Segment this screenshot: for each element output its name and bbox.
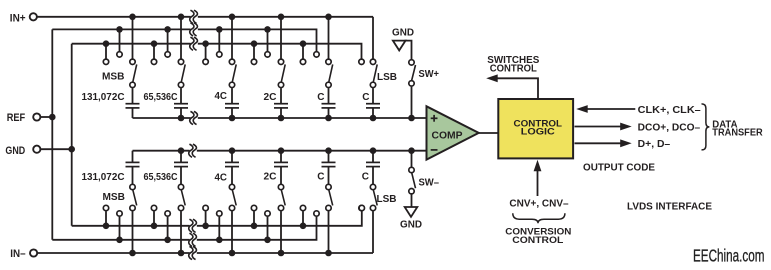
junction IN- rail at 64k- <box>178 250 185 257</box>
wire capacitor to pivot (4C-) <box>231 167 233 185</box>
contact REF (MSB+) <box>117 52 122 57</box>
wire pivot to capacitor (64k+) <box>180 88 182 104</box>
junction REF bottom rail at 64k- <box>164 237 171 244</box>
junction GND bottom rail at 64k- <box>151 223 158 230</box>
switch pivot (64k+) <box>178 82 183 87</box>
wire IN+ stub to switch contact (2C+) <box>280 17 282 59</box>
junction GND rail at 4C+ <box>202 40 209 47</box>
junction summing rail at 64k+ <box>178 115 185 122</box>
capacitor C1- top plate <box>322 161 336 163</box>
svg-text:2C: 2C <box>264 92 277 103</box>
switch lever (LSB-) <box>373 190 377 206</box>
junction summing rail at C1+ <box>325 115 332 122</box>
svg-text:C: C <box>362 92 369 103</box>
wire break symbol <box>191 116 198 120</box>
junction IN+ rail at MSB+ <box>129 13 136 20</box>
pin + of comparator <box>431 117 438 119</box>
brace data transfer <box>702 104 710 150</box>
wire REF vertical bus <box>51 29 53 239</box>
ground symbol above SW+ <box>393 41 406 51</box>
svg-text:65,536C: 65,536C <box>144 92 178 103</box>
wire GND stub (4C-) <box>205 211 207 226</box>
wire REF stub (MSB+) <box>119 29 121 51</box>
wire GND stub (2C+) <box>253 44 255 59</box>
capacitor MSB+ top plate <box>126 103 140 105</box>
wire IN+ rail corner down to LSB+ contact <box>372 17 374 59</box>
wire DCO output line <box>575 126 622 128</box>
junction REF rail at 4C+ <box>216 26 223 33</box>
junction REF <box>49 114 56 121</box>
wire GND stub (C1-) <box>302 211 304 226</box>
node IN- terminal <box>30 249 37 256</box>
node IN+ terminal <box>30 13 37 20</box>
switch contact IN- (C1-) <box>326 205 331 210</box>
switch contact IN+ (2C+) <box>278 59 283 64</box>
capacitor C1- bottom plate <box>322 166 336 168</box>
switch pivot (LSB-) <box>370 184 375 189</box>
wire ground to SW+ contact <box>405 41 412 59</box>
switch pivot (4C+) <box>229 82 234 87</box>
wire IN- stub (2C-) <box>280 211 282 253</box>
capacitor LSB- top plate <box>366 161 380 163</box>
wire summing rail to capacitor (2C-) <box>280 151 282 163</box>
svg-text:MSB: MSB <box>103 192 126 203</box>
switch pivot (2C-) <box>278 184 283 189</box>
junction IN- rail at MSB- <box>129 250 136 257</box>
svg-text:SW–: SW– <box>419 178 440 189</box>
switch contact IN+ (MSB+) <box>130 59 135 64</box>
switch SW+ lever <box>412 65 416 80</box>
wire IN- stub (64k-) <box>180 211 182 253</box>
svg-text:C: C <box>362 172 369 183</box>
capacitor LSB- bottom plate <box>366 166 380 168</box>
wire GND stub (64k-) <box>153 211 155 226</box>
wire REF stub (MSB-) <box>119 217 121 240</box>
svg-text:4C: 4C <box>215 91 228 102</box>
capacitor MSB- bottom plate <box>126 166 140 168</box>
pin - of comparator <box>431 149 438 151</box>
svg-text:CLK+, CLK–: CLK+, CLK– <box>638 105 701 116</box>
capacitor 64k- bottom plate <box>174 166 188 168</box>
junction GND rail at MSB+ <box>103 40 110 47</box>
svg-text:GND: GND <box>5 145 25 157</box>
contact REF (2C+) <box>265 52 270 57</box>
contact GND (LSB+) <box>359 59 364 64</box>
svg-text:LSB: LSB <box>377 72 397 83</box>
control logic block U2 <box>498 99 573 158</box>
switch lever (2C-) <box>281 190 285 206</box>
wire break symbol <box>191 27 198 31</box>
contact GND (LSB-) <box>359 205 364 210</box>
capacitor 64k+ top plate <box>174 103 188 105</box>
svg-text:COMP: COMP <box>432 130 463 141</box>
wire capacitor to pivot (2C-) <box>280 167 282 185</box>
wire REF stub (4C-) <box>218 217 220 240</box>
switch lever (MSB+) <box>133 64 137 82</box>
wire IN- stub (MSB-) <box>132 211 134 253</box>
wire IN+ stub to switch contact (MSB+) <box>132 17 134 59</box>
junction GND rail at C1+ <box>300 40 307 47</box>
arrow DCO output <box>620 123 632 131</box>
svg-text:CNV+, CNV–: CNV+, CNV– <box>509 199 569 210</box>
capacitor 64k- top plate <box>174 161 188 163</box>
switch contact IN- (MSB-) <box>130 205 135 210</box>
switch lever (4C+) <box>232 64 236 82</box>
junction IN- rail at 4C- <box>229 250 236 257</box>
wire GND stub (4C+) <box>205 44 207 59</box>
wire capacitor to summing rail (64k+) <box>180 108 182 118</box>
capacitor MSB- top plate <box>126 161 140 163</box>
op-amp U1 comparator COMP <box>427 106 479 159</box>
wire REF bottom rail <box>52 217 316 240</box>
wire D output line <box>575 142 622 144</box>
switch pivot (2C+) <box>278 82 283 87</box>
contact GND (4C-) <box>203 205 208 210</box>
switch SW+ pivot <box>409 81 414 86</box>
switch lever (LSB+) <box>373 64 377 82</box>
wire CNV conversion control <box>537 171 539 197</box>
junction bottom summing rail at 2C- <box>278 147 285 154</box>
capacitor LSB+ bottom plate <box>366 107 380 109</box>
wire IN+ stub to switch contact (64k+) <box>180 17 182 59</box>
junction REF rail at 64k+ <box>164 26 171 33</box>
arrow D output <box>620 139 632 147</box>
junction bottom summing rail at 4C- <box>229 147 236 154</box>
wire switches control from control logic <box>497 78 538 99</box>
wire summing rail to capacitor (LSB-) <box>372 151 374 163</box>
svg-text:OUTPUT CODE: OUTPUT CODE <box>583 163 655 174</box>
arrow CNV into control logic <box>534 160 542 172</box>
contact GND (64k+) <box>151 59 156 64</box>
junction SW+ on summing rail <box>408 115 415 122</box>
junction REF bottom rail at 4C- <box>216 237 223 244</box>
wire SW+ to summing rail <box>411 87 413 118</box>
svg-text:65,536C: 65,536C <box>144 172 178 183</box>
switch contact IN- (2C-) <box>278 205 283 210</box>
junction IN+ rail at 64k+ <box>178 13 185 20</box>
svg-text:D+, D–: D+, D– <box>638 139 671 150</box>
wire REF stub (2C+) <box>267 29 269 51</box>
contact GND (2C-) <box>251 205 256 210</box>
switch SW- pivot <box>409 189 414 194</box>
wire GND stub (64k+) <box>153 44 155 59</box>
wire pivot to capacitor (2C+) <box>280 88 282 104</box>
switch pivot (LSB+) <box>370 82 375 87</box>
wire pivot to capacitor (C1+) <box>328 88 330 104</box>
junction GND rail at 64k+ <box>151 40 158 47</box>
wire GND stub (C1+) <box>302 44 304 59</box>
wire comparator output to control logic <box>479 132 499 134</box>
wire GND stub (MSB+) <box>105 44 107 59</box>
wire capacitor to summing rail (2C+) <box>280 108 282 118</box>
brace conversion control <box>513 213 565 223</box>
contact GND (LSB-) on rail corner <box>359 205 364 210</box>
wire break symbol <box>190 251 197 255</box>
capacitor 4C+ top plate <box>225 103 239 105</box>
ground symbol below SW- <box>405 207 418 217</box>
junction IN- rail at C1- <box>325 250 332 257</box>
wire capacitor to pivot (C1-) <box>328 167 330 185</box>
wire IN- rail (bottom rail 1) <box>37 252 373 254</box>
wire break symbol <box>190 238 197 242</box>
wire IN- stub (4C-) <box>231 211 233 253</box>
switch lever (2C+) <box>281 64 285 82</box>
wire SW- to ground <box>411 195 413 208</box>
wire pivot to capacitor (LSB+) <box>372 88 374 104</box>
contact REF (64k+) <box>165 52 170 57</box>
capacitor 2C+ top plate <box>274 103 288 105</box>
capacitor 2C- top plate <box>274 161 288 163</box>
capacitor 64k+ bottom plate <box>174 107 188 109</box>
junction REF bottom rail at MSB- <box>116 237 123 244</box>
wire GND bottom rail <box>72 211 362 226</box>
wire GND vertical bus <box>71 44 73 226</box>
svg-text:SW+: SW+ <box>419 69 440 80</box>
wire CLK input line <box>587 108 636 110</box>
wire bottom summing rail to comparator - <box>133 150 427 152</box>
svg-text:LVDS INTERFACE: LVDS INTERFACE <box>627 202 712 213</box>
junction IN+ rail at C1+ <box>325 13 332 20</box>
svg-text:CONTROL: CONTROL <box>490 63 537 74</box>
junction summing rail at 4C+ <box>229 115 236 122</box>
capacitor 4C+ bottom plate <box>225 107 239 109</box>
svg-text:C: C <box>317 172 324 183</box>
switch contact IN- (4C-) <box>229 205 234 210</box>
junction GND bottom rail at 2C- <box>251 223 258 230</box>
wire break symbol <box>191 15 198 19</box>
node GND terminal <box>33 146 40 153</box>
svg-text:131,072C: 131,072C <box>82 92 125 103</box>
contact GND (MSB+) <box>103 59 108 64</box>
contact REF (4C+) <box>217 52 222 57</box>
switch SW- lever <box>412 173 416 189</box>
contact GND (C1-) <box>300 205 305 210</box>
contact GND (C1+) <box>300 59 305 64</box>
contact GND (MSB-) <box>103 205 108 210</box>
wire REF stub (4C+) <box>218 29 220 51</box>
switch SW- top contact <box>409 167 414 172</box>
wire GND top rail (rail 3) <box>72 44 362 59</box>
capacitor MSB+ bottom plate <box>126 107 140 109</box>
contact GND (2C+) <box>251 59 256 64</box>
svg-text:DCO+, DCO–: DCO+, DCO– <box>638 122 701 133</box>
junction GND bottom rail at C1- <box>300 223 307 230</box>
wire break symbol <box>190 224 197 228</box>
wire capacitor to pivot (64k-) <box>180 167 182 185</box>
contact GND (64k-) <box>151 205 156 210</box>
capacitor 4C- bottom plate <box>225 166 239 168</box>
junction REF rail at MSB+ <box>116 26 123 33</box>
junction GND bottom rail at MSB- <box>103 223 110 230</box>
wire IN+ rail (top rail 1) <box>37 16 373 18</box>
junction bottom summing rail at C1- <box>325 147 332 154</box>
wire REF top rail (rail 2) <box>52 29 316 51</box>
switch contact IN+ (4C+) <box>229 59 234 64</box>
svg-text:GND: GND <box>392 28 414 39</box>
svg-text:TRANSFER: TRANSFER <box>712 127 763 138</box>
switch pivot (4C-) <box>229 184 234 189</box>
wire IN- stub (C1-) <box>328 211 330 253</box>
wire capacitor to summing rail (LSB+) <box>372 108 374 118</box>
switch pivot (C1-) <box>326 184 331 189</box>
wire GND stub (MSB-) <box>105 211 107 226</box>
capacitor 2C- bottom plate <box>274 166 288 168</box>
switch contact IN- (64k-) <box>178 205 183 210</box>
switch lever (64k+) <box>181 64 185 82</box>
wire break symbol <box>191 42 198 46</box>
wire IN+ stub to switch contact (C1+) <box>328 17 330 59</box>
svg-text:IN+: IN+ <box>10 12 26 24</box>
junction SW- on bottom summing rail <box>408 147 415 154</box>
arrow switches control <box>486 74 498 82</box>
wire capacitor to pivot (MSB-) <box>132 167 134 185</box>
switch contact IN- (LSB-) <box>370 205 375 210</box>
switch contact IN+ (C1+) <box>326 59 331 64</box>
switch lever (C1+) <box>329 64 333 82</box>
switch pivot (64k-) <box>178 184 183 189</box>
junction GND bottom rail at 4C- <box>202 223 209 230</box>
wire pivot to capacitor (4C+) <box>231 88 233 104</box>
wire GND terminal to vertical <box>40 148 71 150</box>
junction summing rail at 2C+ <box>278 115 285 122</box>
wire GND stub (2C-) <box>253 211 255 226</box>
switch lever (C1-) <box>329 190 333 206</box>
junction summing rail at LSB+ <box>370 115 377 122</box>
switch pivot (C1+) <box>326 82 331 87</box>
contact REF (C1+) <box>314 52 319 57</box>
junction bottom summing rail at LSB- <box>370 147 377 154</box>
node REF terminal <box>33 113 40 120</box>
svg-text:4C: 4C <box>215 173 228 184</box>
wire summing rail to SW- <box>411 151 413 168</box>
capacitor C1+ bottom plate <box>322 107 336 109</box>
contact GND (4C+) <box>203 59 208 64</box>
svg-text:CONTROL: CONTROL <box>512 234 563 245</box>
svg-text:2C: 2C <box>264 172 277 183</box>
wire REF stub (64k-) <box>167 217 169 240</box>
junction IN+ rail at 2C+ <box>278 13 285 20</box>
wire break symbol <box>190 149 197 153</box>
capacitor 2C+ bottom plate <box>274 107 288 109</box>
svg-text:C: C <box>317 92 324 103</box>
wire top summing rail to comparator + <box>133 117 427 119</box>
wire summing rail to capacitor (C1-) <box>328 151 330 163</box>
contact REF (MSB-) <box>117 211 122 216</box>
junction GND <box>68 146 75 153</box>
junction GND rail at 2C+ <box>251 40 258 47</box>
switch lever (MSB-) <box>133 190 137 206</box>
svg-text:MSB: MSB <box>102 72 125 83</box>
capacitor 4C- top plate <box>225 161 239 163</box>
junction bottom summing rail at 64k- <box>178 147 185 154</box>
contact REF (C1-) <box>314 211 319 216</box>
wire IN+ stub to switch contact (4C+) <box>231 17 233 59</box>
wire REF terminal to vertical <box>40 116 52 118</box>
svg-text:LOGIC: LOGIC <box>521 127 555 138</box>
wire capacitor to summing rail (C1+) <box>328 108 330 118</box>
switch SW+ top contact <box>409 60 414 65</box>
contact REF (4C-) <box>217 211 222 216</box>
svg-text:EEChina.com: EEChina.com <box>693 246 765 266</box>
svg-text:GND: GND <box>400 220 422 231</box>
switch lever (64k-) <box>181 190 185 206</box>
wire capacitor to pivot (LSB-) <box>372 167 374 185</box>
wire REF stub (2C-) <box>267 217 269 240</box>
svg-text:131,072C: 131,072C <box>82 172 125 183</box>
wire capacitor to summing rail (MSB+) <box>132 108 134 118</box>
switch contact IN+ (LSB+) <box>370 59 375 64</box>
wire REF stub (64k+) <box>167 29 169 51</box>
wire summing rail to capacitor (MSB-) <box>132 151 134 163</box>
switch contact IN+ (64k+) <box>178 59 183 64</box>
junction IN+ rail at 4C+ <box>229 13 236 20</box>
switch pivot (MSB-) <box>130 184 135 189</box>
junction REF rail at 2C+ <box>264 26 271 33</box>
wire capacitor to summing rail (4C+) <box>231 108 233 118</box>
contact REF (64k-) <box>165 211 170 216</box>
junction IN- rail at 2C- <box>278 250 285 257</box>
wire LSB- contact down to IN- rail corner <box>372 211 374 253</box>
capacitor C1+ top plate <box>322 103 336 105</box>
wire pivot to capacitor (MSB+) <box>132 88 134 104</box>
contact REF (2C-) <box>265 211 270 216</box>
wire summing rail to capacitor (64k-) <box>180 151 182 163</box>
capacitor LSB+ top plate <box>366 103 380 105</box>
svg-text:LSB: LSB <box>377 194 397 205</box>
switch lever (4C-) <box>232 190 236 206</box>
switch pivot (MSB+) <box>130 82 135 87</box>
svg-text:REF: REF <box>7 112 26 124</box>
junction REF bottom rail at 2C- <box>264 237 271 244</box>
arrow CLK into control logic <box>576 105 588 113</box>
svg-text:IN–: IN– <box>10 248 25 260</box>
wire summing rail to capacitor (4C-) <box>231 151 233 163</box>
